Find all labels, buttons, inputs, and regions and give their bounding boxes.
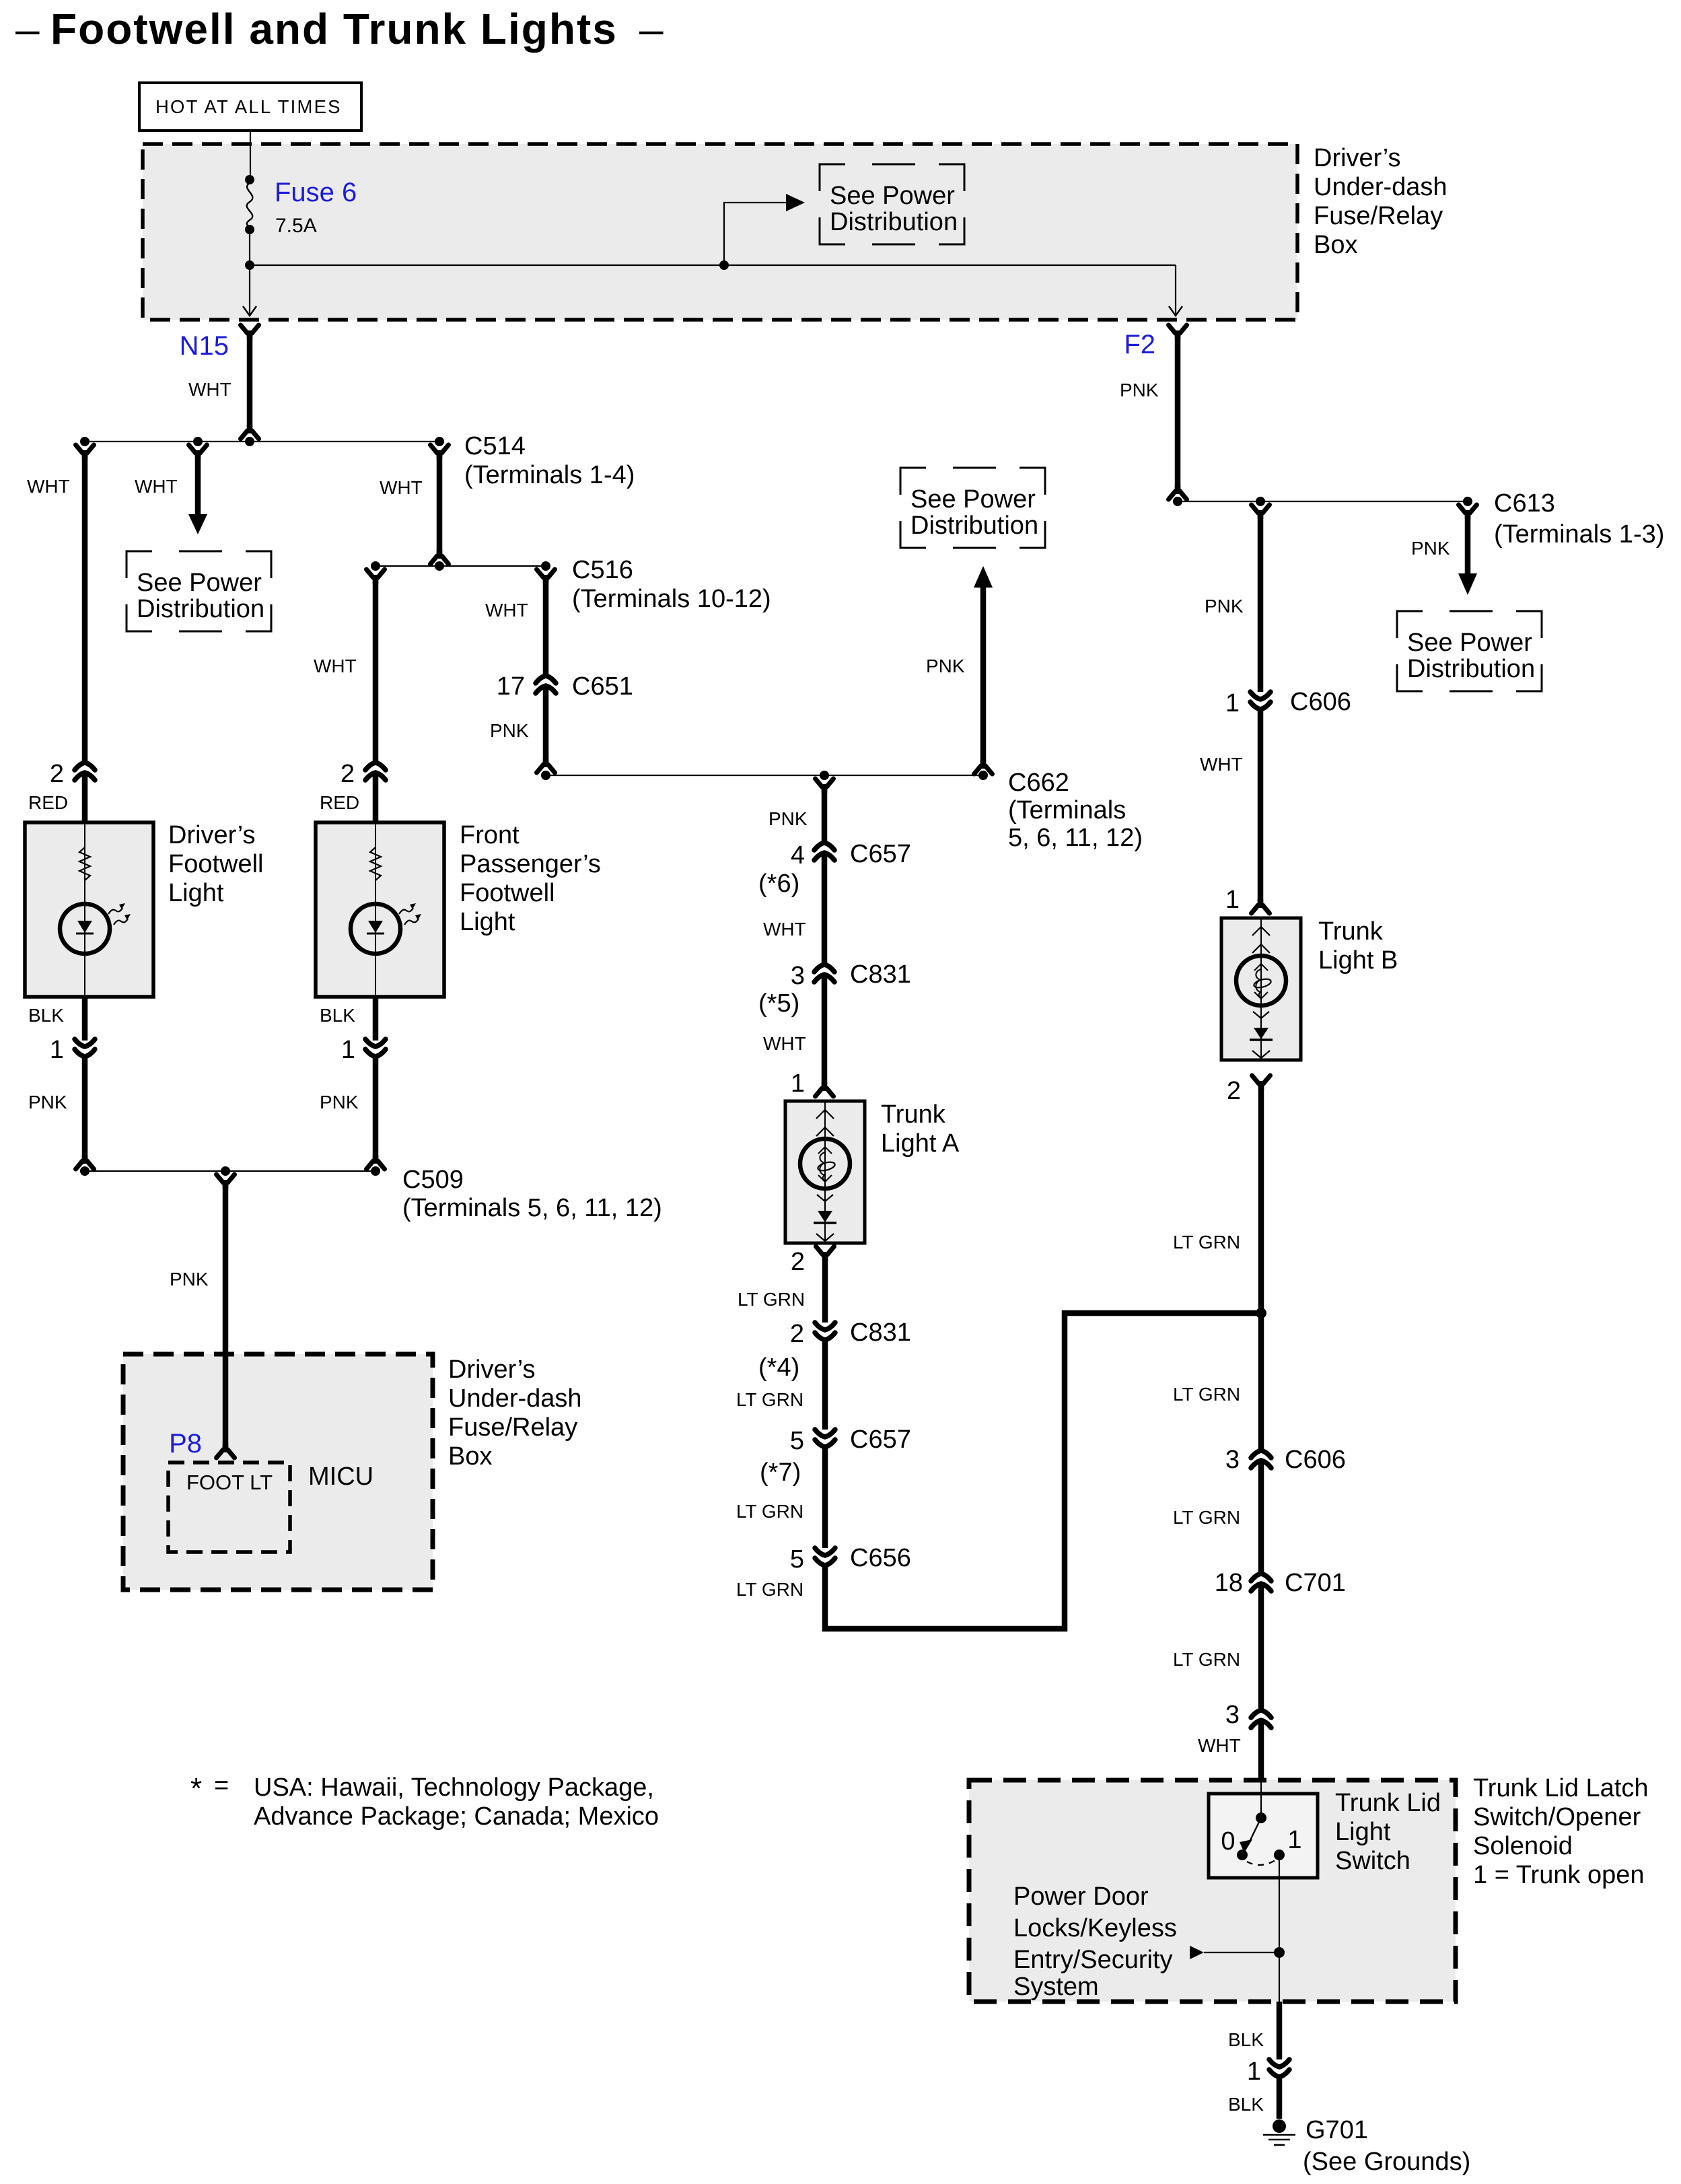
wire LT GRN <box>1258 1584 1264 1710</box>
connector C701 pin 18 <box>1251 1574 1271 1591</box>
svg-text:LT GRN: LT GRN <box>1173 1384 1240 1405</box>
connector C656 pin 5 <box>815 1548 835 1565</box>
svg-text:–: – <box>15 5 40 53</box>
wire into switch common <box>1260 1780 1262 1818</box>
connector at C509 driver's <box>76 1155 94 1169</box>
label driver's footwell light <box>168 821 264 907</box>
svg-text:Fuse/Relay: Fuse/Relay <box>448 1413 577 1442</box>
svg-text:System: System <box>1013 1973 1099 2001</box>
node C2 <box>820 771 829 780</box>
G701 label <box>1303 2116 1470 2176</box>
svg-text:C606: C606 <box>1290 688 1351 716</box>
arrowhead into see power distribution <box>786 194 805 211</box>
svg-text:Light: Light <box>1335 1818 1391 1846</box>
svg-text:Driver’s: Driver’s <box>168 821 256 849</box>
label front passenger's footwell light <box>460 821 601 936</box>
svg-text:PNK: PNK <box>768 808 808 829</box>
svg-text:1: 1 <box>1225 689 1240 717</box>
wire RED <box>82 773 88 822</box>
wire N15 (WHT) <box>247 334 253 427</box>
C509 label <box>402 1166 662 1222</box>
svg-text:1: 1 <box>341 1036 355 1064</box>
junction to power distribution arrow <box>719 260 729 270</box>
arrowhead security system <box>1190 1946 1204 1959</box>
label: Driver's Under-dash Fuse/Relay Box (bottom) <box>448 1355 582 1471</box>
wire fuse to bus node <box>249 230 250 265</box>
label: trunk lid light switch <box>1335 1789 1441 1875</box>
connector C831 pin 2 <box>815 1323 835 1340</box>
svg-text:C701: C701 <box>1285 1569 1346 1597</box>
svg-text:Light: Light <box>460 908 515 936</box>
driver's under-dash fuse/relay box (top) <box>143 144 1297 320</box>
wire to security system arrow <box>1204 1952 1279 1953</box>
svg-text:1: 1 <box>1225 886 1240 914</box>
MICU under-dash fuse/relay box <box>123 1354 433 1590</box>
node B2 <box>435 561 444 571</box>
svg-text:C613: C613 <box>1494 489 1555 518</box>
svg-text:WHT: WHT <box>135 476 178 497</box>
svg-text:USA: Hawaii, Technology Packag: USA: Hawaii, Technology Package, <box>254 1773 654 1802</box>
connector pin 1 front passenger <box>365 1039 386 1057</box>
svg-text:LT GRN: LT GRN <box>736 1501 803 1522</box>
trunk light A <box>785 1101 865 1243</box>
svg-text:(*5): (*5) <box>758 989 799 1018</box>
power door locks dashed box <box>969 1780 1456 2002</box>
svg-text:1: 1 <box>1287 1826 1301 1854</box>
svg-text:F2: F2 <box>1124 330 1155 359</box>
svg-text:4: 4 <box>791 841 805 870</box>
wire BLK front passenger <box>373 997 379 1041</box>
svg-text:1 = Trunk open: 1 = Trunk open <box>1473 1861 1645 1889</box>
see power distribution box (right) <box>1397 611 1542 691</box>
driver's footwell light <box>25 822 153 997</box>
node B1 <box>371 561 380 571</box>
connector trunk light A branch top <box>816 779 834 793</box>
connector pin 3 trunk lid switch <box>1251 1710 1271 1728</box>
wire LT GRN <box>822 1446 828 1548</box>
fuse F6 node dot <box>245 175 254 184</box>
wire LT GRN below trunk A <box>822 1255 828 1323</box>
svg-text:PNK: PNK <box>1120 380 1159 400</box>
arrowhead up <box>974 566 993 588</box>
svg-text:Fuse 6: Fuse 6 <box>275 178 357 207</box>
svg-text:PNK: PNK <box>926 656 965 676</box>
wire BLK to ground <box>1277 2076 1283 2119</box>
arrow branch to see power distribution (left) <box>189 445 207 459</box>
svg-text:(*4): (*4) <box>758 1353 799 1382</box>
svg-text:–: – <box>639 5 664 53</box>
wire PNK down to see power distribution (right) <box>1465 514 1471 573</box>
connector C662 area bottom of C516 branch <box>537 759 555 773</box>
wire up and right to see power distribution <box>724 203 787 265</box>
switch contact 0 <box>1237 1850 1248 1860</box>
svg-text:LT GRN: LT GRN <box>736 1579 803 1600</box>
svg-text:18: 18 <box>1215 1569 1243 1597</box>
svg-text:C514: C514 <box>464 432 526 460</box>
svg-text:PNK: PNK <box>28 1092 67 1113</box>
fuse 6 element (squiggle) <box>247 183 253 227</box>
wire L from trunk A column to trunk B column <box>825 1313 1256 1629</box>
node E2 <box>221 1166 230 1176</box>
svg-text:3: 3 <box>1225 1701 1240 1729</box>
svg-text:WHT: WHT <box>380 477 423 498</box>
svg-text:(Terminals 10-12): (Terminals 10-12) <box>572 585 771 613</box>
svg-text:Front: Front <box>460 821 520 849</box>
wire down to N15 with arrow <box>249 265 250 314</box>
C613 label <box>1494 489 1664 549</box>
svg-text:WHT: WHT <box>1200 754 1243 775</box>
node A4 <box>435 437 444 446</box>
svg-text:RED: RED <box>28 792 68 813</box>
connector at C509 front passenger <box>367 1155 385 1169</box>
connector pin 1 trunk light B <box>1252 899 1270 913</box>
svg-text:LT GRN: LT GRN <box>1173 1232 1240 1253</box>
horizontal wire inside fuse box <box>250 265 1176 266</box>
HOT AT ALL TIMES box <box>139 83 361 131</box>
open arrowhead at N15 <box>243 306 256 316</box>
svg-text:(See Grounds): (See Grounds) <box>1303 2148 1470 2176</box>
svg-text:Passenger’s: Passenger’s <box>460 850 601 878</box>
svg-text:2: 2 <box>50 760 64 788</box>
wire WHT front passenger <box>373 578 379 763</box>
svg-text:5: 5 <box>790 1545 804 1574</box>
wire PNK F2 <box>1175 334 1181 490</box>
svg-text:P8: P8 <box>169 1429 202 1458</box>
svg-text:MICU: MICU <box>308 1463 373 1491</box>
wire PNK below C651 <box>543 686 549 763</box>
label trunk light A <box>881 1100 960 1158</box>
node D2 <box>1256 497 1265 506</box>
svg-text:Switch: Switch <box>1335 1847 1410 1875</box>
bus 4 <box>1178 501 1468 502</box>
svg-text:0: 0 <box>1221 1827 1235 1856</box>
svg-text:C831: C831 <box>850 1318 911 1347</box>
svg-text:5: 5 <box>790 1427 804 1455</box>
label: Driver's Under-dash Fuse/Relay Box (top right) <box>1314 144 1447 259</box>
connector pin 2 front passenger <box>365 763 386 780</box>
node C1 <box>541 771 550 780</box>
svg-text:Under-dash: Under-dash <box>1314 173 1447 201</box>
bus 2 <box>375 565 546 567</box>
svg-text:Light B: Light B <box>1318 946 1398 975</box>
svg-text:Power Door: Power Door <box>1013 1882 1149 1911</box>
wire WHT into switch box <box>1258 1720 1264 1780</box>
C662 label <box>1008 769 1143 852</box>
svg-text:C657: C657 <box>850 840 911 868</box>
node D1 <box>1173 497 1182 506</box>
switch common node <box>1256 1812 1266 1823</box>
node E1 <box>80 1166 90 1176</box>
arrowhead down <box>1458 573 1477 595</box>
switch contact 1 <box>1274 1850 1285 1860</box>
svg-text:3: 3 <box>791 962 805 990</box>
svg-text:1: 1 <box>1247 2057 1261 2086</box>
connector F2 top <box>1169 325 1187 339</box>
svg-text:PNK: PNK <box>1411 538 1450 559</box>
svg-text:BLK: BLK <box>28 1005 64 1026</box>
connector pin 2 trunk light B <box>1252 1076 1271 1090</box>
open arrowhead at F2 <box>1169 306 1182 316</box>
svg-text:Fuse/Relay: Fuse/Relay <box>1314 202 1443 230</box>
front passenger's footwell light <box>316 822 444 997</box>
connector pin 1 ground <box>1269 2059 1289 2077</box>
svg-text:Driver’s: Driver’s <box>448 1355 536 1384</box>
svg-text:RED: RED <box>320 792 359 813</box>
switch lever <box>1248 1818 1261 1844</box>
wire PNK to MICU <box>223 1183 229 1448</box>
svg-text:WHT: WHT <box>1198 1735 1241 1756</box>
svg-text:WHT: WHT <box>314 656 357 676</box>
connector C651 pin 17 <box>536 676 556 693</box>
svg-text:Switch/Opener: Switch/Opener <box>1473 1803 1641 1831</box>
svg-text:WHT: WHT <box>188 379 231 400</box>
svg-text:BLK: BLK <box>1228 2094 1264 2115</box>
connector N15 <box>241 325 259 339</box>
svg-text:17: 17 <box>497 672 525 701</box>
node at fuse output <box>245 260 254 270</box>
svg-text:Light: Light <box>168 879 224 907</box>
svg-text:G701: G701 <box>1306 2116 1368 2144</box>
svg-text:5, 6, 11, 12): 5, 6, 11, 12) <box>1008 824 1143 852</box>
wire LT GRN <box>822 1339 828 1430</box>
svg-text:Trunk: Trunk <box>881 1100 946 1129</box>
svg-text:Entry/Security: Entry/Security <box>1013 1946 1173 1974</box>
connector C514 bottom <box>431 550 449 564</box>
wire C514 segment <box>437 454 443 555</box>
bus C509 <box>85 1170 375 1172</box>
bus 3 <box>546 775 983 776</box>
svg-text:Light A: Light A <box>881 1129 960 1158</box>
label trunk light B <box>1318 917 1398 975</box>
dashed throw arc <box>1247 1860 1275 1865</box>
connector C514 top <box>431 445 449 459</box>
svg-text:C657: C657 <box>850 1425 911 1454</box>
footnote <box>190 1771 659 1831</box>
wire RED <box>373 773 379 822</box>
wire from HOT box into fuse box <box>250 131 251 180</box>
title <box>15 5 664 53</box>
svg-text:C516: C516 <box>572 556 633 584</box>
connector pin 2 driver's footwell <box>75 763 95 780</box>
junction node with L wire <box>1256 1308 1266 1318</box>
trunk lid light switch box <box>1209 1794 1318 1878</box>
svg-text:LT GRN: LT GRN <box>738 1289 805 1310</box>
C514 label <box>464 432 635 489</box>
connector C606 pin 1 <box>1250 692 1271 709</box>
see power distribution box (middle) <box>900 468 1045 548</box>
svg-text:Trunk: Trunk <box>1318 917 1384 946</box>
node B3 <box>541 561 550 571</box>
connector C613 under bus <box>1459 505 1477 519</box>
svg-text:C662: C662 <box>1008 769 1069 797</box>
svg-text:3: 3 <box>1225 1446 1240 1474</box>
svg-text:Trunk Lid Latch: Trunk Lid Latch <box>1473 1774 1649 1802</box>
connector trunk light B branch top <box>1252 505 1270 519</box>
wire WHT trunk B <box>1258 709 1264 903</box>
node A3 <box>245 437 254 446</box>
svg-text:Footwell: Footwell <box>168 850 264 878</box>
svg-text:(Terminals 5, 6, 11, 12): (Terminals 5, 6, 11, 12) <box>402 1194 662 1222</box>
connector P8 <box>217 1444 235 1458</box>
svg-text:Box: Box <box>1314 231 1357 259</box>
C516 label <box>572 556 771 613</box>
svg-text:Box: Box <box>448 1442 492 1471</box>
svg-text:WHT: WHT <box>763 1033 806 1054</box>
svg-text:Driver’s: Driver’s <box>1314 144 1401 172</box>
svg-text:BLK: BLK <box>1228 2029 1264 2050</box>
connector pin 1 trunk light A <box>816 1082 834 1096</box>
svg-text:PNK: PNK <box>320 1092 359 1113</box>
connector P8 branch top <box>217 1174 235 1189</box>
svg-text:FOOT LT: FOOT LT <box>186 1471 273 1494</box>
svg-text:PNK: PNK <box>490 720 529 741</box>
wire WHT C516 <box>543 578 549 676</box>
svg-text:Locks/Keyless: Locks/Keyless <box>1013 1914 1177 1942</box>
connector C831 pin 3 <box>814 964 834 982</box>
trunk light B <box>1221 918 1301 1060</box>
wire PNK trunk B <box>1258 514 1264 692</box>
svg-text:HOT AT ALL TIMES: HOT AT ALL TIMES <box>155 96 342 117</box>
svg-text:Footwell and Trunk Lights: Footwell and Trunk Lights <box>50 5 618 53</box>
connector top front passenger branch <box>367 569 385 584</box>
svg-text:C831: C831 <box>850 960 911 989</box>
svg-text:*: * <box>190 1772 202 1805</box>
fuse bottom dot <box>245 225 254 234</box>
svg-text:(*6): (*6) <box>758 870 799 898</box>
svg-text:WHT: WHT <box>485 600 528 621</box>
node A2 <box>193 437 203 446</box>
connector top of driver's footwell branch <box>76 445 94 459</box>
wire from contact 1 down <box>1279 1855 1280 2002</box>
svg-text:C606: C606 <box>1285 1446 1346 1474</box>
wire LT GRN <box>1258 1460 1264 1574</box>
wire PNK up to see power distribution (middle) <box>980 587 987 765</box>
svg-text:N15: N15 <box>180 331 229 361</box>
svg-text:BLK: BLK <box>320 1005 355 1026</box>
bus 1 (below N15) <box>85 441 439 442</box>
wire down to F2 with arrow <box>1175 265 1176 314</box>
junction to security system <box>1274 1947 1285 1958</box>
wire WHT arrow branch <box>195 454 201 516</box>
node D3 <box>1463 497 1472 506</box>
connector pin 2 trunk light A <box>816 1246 834 1261</box>
svg-text:LT GRN: LT GRN <box>1173 1649 1240 1670</box>
wire PNK driver's <box>82 1056 88 1160</box>
svg-text:2: 2 <box>790 1320 804 1348</box>
connector F2 bottom <box>1169 485 1187 499</box>
wire LT GRN below trunk B <box>1258 1084 1264 1450</box>
connector C516 top <box>537 569 555 584</box>
svg-text:WHT: WHT <box>27 476 70 497</box>
wire PNK trunk A <box>822 787 828 843</box>
svg-text:(Terminals 1-3): (Terminals 1-3) <box>1494 520 1664 549</box>
svg-text:Under-dash: Under-dash <box>448 1384 582 1413</box>
connector C657 pin 5 <box>815 1430 835 1447</box>
connector pin 1 driver's <box>75 1039 95 1057</box>
svg-text:(Terminals 1-4): (Terminals 1-4) <box>464 461 635 489</box>
svg-text:(*7): (*7) <box>760 1458 801 1487</box>
svg-text:C509: C509 <box>402 1166 464 1194</box>
svg-text:PNK: PNK <box>170 1269 209 1290</box>
svg-text:Trunk Lid: Trunk Lid <box>1335 1789 1441 1817</box>
svg-text:7.5A: 7.5A <box>275 215 317 237</box>
label: trunk lid latch switch/opener solenoid <box>1473 1774 1649 1889</box>
svg-text:(Terminals: (Terminals <box>1008 796 1126 824</box>
wire BLK driver's <box>82 997 88 1041</box>
wire WHT <box>822 853 828 964</box>
svg-text:LT GRN: LT GRN <box>1173 1507 1240 1528</box>
svg-text:2: 2 <box>1227 1077 1241 1105</box>
svg-text:=: = <box>214 1771 229 1800</box>
svg-text:PNK: PNK <box>1205 596 1244 617</box>
arrowhead down <box>188 514 207 534</box>
node E3 <box>371 1166 380 1176</box>
see power distribution box (left) <box>127 551 271 631</box>
connector N15 bottom <box>241 425 259 439</box>
node A1 <box>80 437 90 446</box>
svg-text:C651: C651 <box>572 672 633 701</box>
svg-text:Solenoid: Solenoid <box>1473 1832 1573 1860</box>
svg-text:WHT: WHT <box>763 919 806 940</box>
svg-text:1: 1 <box>50 1036 64 1064</box>
svg-text:LT GRN: LT GRN <box>736 1389 803 1410</box>
FOOT LT dashed box <box>168 1463 290 1552</box>
connector under C662 arrow <box>974 760 993 774</box>
connector C606 pin 3 <box>1251 1450 1271 1468</box>
node C3 <box>978 771 988 780</box>
lever arrowhead <box>1240 1839 1252 1853</box>
connector C657 pin 4 <box>814 843 834 860</box>
svg-text:2: 2 <box>341 760 355 788</box>
svg-text:C656: C656 <box>850 1544 911 1572</box>
label: power door locks/keyless entry/security system <box>1013 1882 1177 2001</box>
ground G701 <box>1263 2119 1295 2145</box>
svg-text:2: 2 <box>791 1248 805 1276</box>
svg-text:Footwell: Footwell <box>460 879 555 907</box>
svg-text:Advance Package; Canada; Mexic: Advance Package; Canada; Mexico <box>254 1802 659 1831</box>
see power distribution box (in fuse box) <box>820 164 964 244</box>
wire WHT below C831 <box>822 975 828 1085</box>
wire BLK below box <box>1277 2002 1283 2059</box>
wire PNK front passenger <box>373 1056 379 1160</box>
svg-text:1: 1 <box>791 1069 805 1098</box>
wire WHT driver's footwell <box>82 454 88 763</box>
